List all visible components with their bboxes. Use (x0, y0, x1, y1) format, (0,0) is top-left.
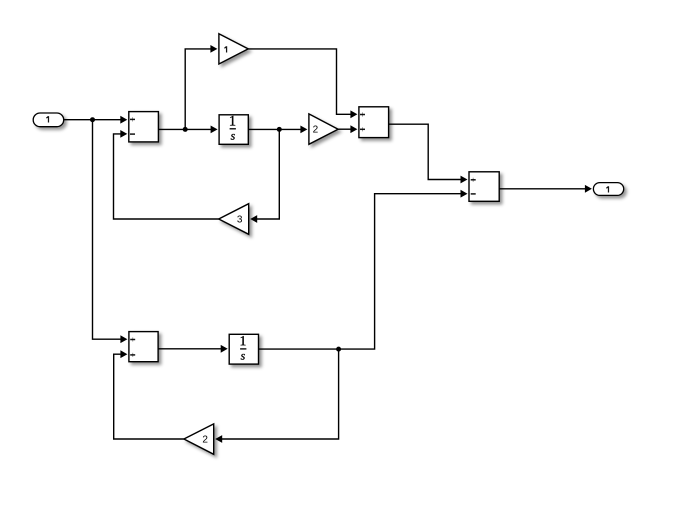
node: junction after sum1 (183, 127, 188, 132)
Sum2 first plus sign (360, 114, 365, 116)
wire: branch down from input junction to sum4 first input (93, 120, 122, 340)
wire: gain3 output feedback to sum1 minus input (114, 134, 219, 219)
gain G2 value 2 (309, 114, 338, 144)
wire: sum1 output to integrator1 input (159, 128, 212, 130)
wire: sum4 output to integrator2 input (158, 348, 221, 350)
Sum3 plus sign (471, 179, 476, 181)
wire: gain1 output to sum2 first input (248, 49, 351, 114)
wire: sum3 output to outport 1 (499, 188, 586, 190)
sum block Sum1 plus minus (129, 112, 159, 142)
Sum4 first plus sign (130, 339, 135, 341)
svg-text:2: 2 (202, 434, 208, 445)
Sum1 plus sign (130, 118, 135, 120)
Sum3 minus sign (471, 193, 476, 195)
svg-text:3: 3 (237, 214, 243, 225)
sum block Sum2 plus plus (359, 107, 389, 138)
node: junction below inport (90, 117, 95, 122)
wire: integrator2 output to junction (259, 348, 339, 350)
wire: sum2 output to sum3 first input (389, 124, 462, 179)
node: junction after integrator2 (336, 347, 341, 352)
wire: branch down from integrator2 output to gain5 input (221, 349, 338, 439)
gain G3 value 3 points left (219, 204, 249, 235)
inport 1 (33, 113, 64, 127)
wire: gain5 output feedback to sum4 second input (114, 354, 184, 439)
sum block Sum4 plus plus (129, 332, 158, 362)
gain G1 value 1 (219, 34, 248, 64)
integrator block I1 1/s (219, 115, 248, 145)
node: junction after integrator1 (277, 127, 282, 132)
wire: gain2 output to sum2 second input (338, 128, 351, 130)
Sum1 minus sign (130, 133, 135, 135)
wire: inport 1 to sum1 plus input (64, 119, 121, 121)
sum block Sum3 plus minus (469, 172, 499, 202)
wire: integrator2 junction up to sum3 minus input (339, 194, 462, 349)
integrator block I2 1/s (229, 334, 258, 364)
outport 1 (593, 183, 623, 196)
Sum4 second plus sign (130, 354, 135, 356)
wire: branch down from integrator1 output to gain3 input (256, 129, 279, 219)
wire: branch up from sum1 output to gain1 input (185, 49, 211, 129)
svg-text:2: 2 (313, 125, 319, 136)
wire: integrator1 output to gain2 input (248, 128, 301, 130)
Sum2 second plus sign (360, 128, 365, 130)
gain G5 value 2 points left (184, 424, 214, 454)
